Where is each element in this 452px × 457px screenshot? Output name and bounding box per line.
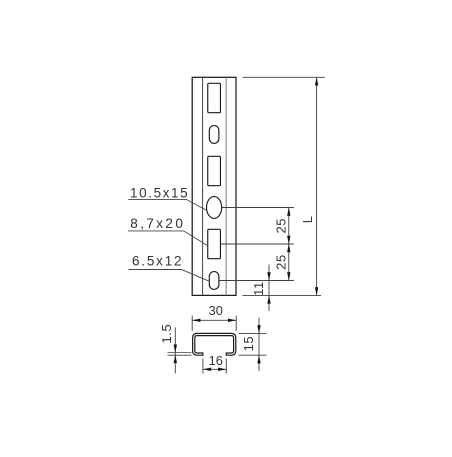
leader 8,7x20 [128, 231, 208, 246]
dimension 1.5 tick top [168, 351, 192, 353]
leader 6.5x12 [129, 270, 209, 281]
svg-text:6.5x12: 6.5x12 [132, 254, 183, 269]
arrow down 15 [257, 325, 260, 333]
arrow up 1.5 [174, 355, 177, 363]
arrow right 16 [218, 368, 226, 371]
right fold line [225, 77, 227, 295]
svg-text:8,7x20: 8,7x20 [130, 216, 185, 231]
left fold line [202, 77, 204, 295]
extension line oval center [219, 280, 294, 282]
slot hole 8.7x20 top [208, 83, 221, 112]
round hole 10.5x15 [207, 197, 222, 219]
svg-text:L: L [300, 215, 315, 223]
slot hole 8.7x20 lower [208, 229, 221, 258]
svg-text:10.5x15: 10.5x15 [130, 186, 189, 201]
dimension line 16 [203, 368, 226, 370]
dimension 16 extension left [202, 359, 204, 374]
dimension 15 extension top [239, 332, 267, 334]
extension line slot center [221, 243, 294, 245]
extension line top [243, 76, 326, 78]
dimension line 1.5 [174, 327, 176, 373]
extension line round hole center [222, 207, 294, 209]
dimension line L [316, 77, 318, 295]
arrow right 30 [228, 319, 236, 322]
dimension 30 extension right [235, 316, 237, 331]
dimension line 15 [258, 318, 260, 371]
arrow up L [315, 77, 318, 85]
arrow up 11 [267, 295, 270, 303]
svg-text:25: 25 [273, 254, 288, 270]
dimension 15 extension bottom [239, 354, 267, 356]
cross-section profile [193, 333, 236, 355]
extension line bottom [243, 294, 322, 296]
dimension line 25/25 [288, 208, 290, 281]
dimension 16 extension right [225, 359, 227, 374]
channel front view outline [192, 77, 236, 295]
arrow down 25 bottom [287, 272, 290, 280]
arrow up 25 mid [287, 244, 290, 252]
svg-text:1.5: 1.5 [159, 324, 174, 344]
svg-text:30: 30 [209, 303, 223, 318]
oval hole 6.5x12 lower [209, 272, 219, 290]
arrow left 30 [192, 319, 200, 322]
svg-text:11: 11 [251, 281, 266, 296]
arrow up 15 [257, 355, 260, 363]
dimension 1.5 tick bottom [168, 354, 192, 356]
arrow down 1.5 [174, 345, 177, 353]
oval hole 6.5x12 upper [209, 126, 219, 144]
arrow down 25 mid [287, 236, 290, 244]
slot hole 8.7x20 middle [208, 156, 221, 185]
dimension 30 extension left [191, 316, 193, 331]
svg-text:25: 25 [273, 218, 288, 234]
svg-text:15: 15 [241, 336, 256, 352]
dimension line 11 [268, 265, 270, 312]
svg-text:16: 16 [209, 353, 223, 368]
arrow down 11 [267, 272, 270, 280]
dimension line 30 [192, 319, 236, 321]
leader 10.5x15 [128, 199, 207, 210]
arrow left 16 [203, 368, 211, 371]
arrow down L [315, 287, 318, 295]
arrow up 25 top [287, 208, 290, 216]
